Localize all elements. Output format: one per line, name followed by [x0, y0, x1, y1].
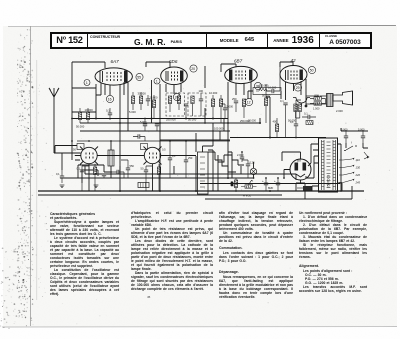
wire drop x232 [228, 152, 232, 178]
resistor 50.000 screen 2 [188, 96, 197, 122]
capacitor 5.000 [146, 95, 150, 106]
svg-text:55: 55 [137, 75, 141, 79]
svg-text:50: 50 [141, 167, 144, 171]
svg-text:100: 100 [199, 89, 204, 93]
wire selector common [338, 158, 352, 199]
resistor 10.000 (V3 screen) [209, 91, 218, 119]
IF shield box 1 [166, 93, 185, 116]
wire rectifier output [282, 152, 301, 178]
svg-text:+: + [274, 179, 276, 183]
switch wafer 2 wires [208, 150, 218, 191]
circled terminal A [84, 80, 90, 86]
svg-text:0,1: 0,1 [172, 154, 176, 158]
resistor 10.000 (V1 cathode) [85, 108, 94, 123]
wire mains top [341, 128, 368, 148]
transformer stubs [312, 144, 342, 191]
svg-text:0,1: 0,1 [290, 120, 294, 124]
tube V3 6B7 [225, 66, 258, 83]
svg-text:30.000: 30.000 [138, 92, 147, 96]
left agc cap [56, 170, 64, 183]
wire diode load verticals [248, 91, 281, 99]
resistor 500 horizontal [310, 94, 326, 101]
resistor 30.000 [138, 92, 147, 111]
IF coil secondary [170, 92, 181, 112]
svg-text:0,1: 0,1 [280, 99, 284, 103]
speaker [333, 91, 353, 105]
choke coil [306, 121, 313, 125]
wire AVC bus [72, 112, 228, 119]
circled 16 [106, 95, 113, 102]
capacitor 0,1 (V1 cathode) [106, 108, 112, 120]
capacitor grid v2 [184, 104, 188, 119]
wire v1 osc anode [72, 82, 124, 95]
svg-text:250: 250 [232, 97, 237, 101]
svg-text:50: 50 [310, 68, 314, 72]
wire V2 electrodes down [152, 80, 182, 143]
voltage selector taps [339, 158, 360, 185]
IF shield box 2 [188, 93, 206, 116]
band switch box [198, 152, 209, 194]
wire switch stair 2 [208, 152, 236, 172]
resistor 25.000 osc [150, 95, 158, 119]
wire switch risers [205, 66, 224, 140]
wire HT secondary to rectifier [306, 144, 319, 178]
svg-text:100.000: 100.000 [214, 127, 224, 131]
svg-text:0507003: 0507003 [327, 175, 331, 188]
wire top rail V3 [221, 64, 236, 72]
svg-text:110: 110 [356, 158, 361, 162]
oscillator coil [108, 141, 114, 178]
tuning gang section 1 [75, 144, 103, 192]
capacitor 10.000 coupling [266, 62, 280, 93]
electrolytic 8MF no2 [274, 178, 280, 191]
tone switch arc [293, 98, 310, 107]
svg-text:2.000: 2.000 [237, 153, 244, 157]
padding cap [121, 160, 134, 178]
bus segment y183 [200, 183, 340, 185]
fold line [31, 26, 37, 326]
ground sym left [60, 185, 65, 188]
svg-text:26: 26 [175, 95, 179, 99]
capacitor 250 mid [184, 141, 193, 178]
speaker field coil label [336, 109, 343, 113]
resistor 50.000 (V3 grid) [219, 95, 222, 123]
capacitor 0,1 (V4 grid) [280, 99, 288, 138]
circled 29 [294, 84, 301, 91]
ground sym v1 [94, 119, 99, 188]
svg-text:0,5: 0,5 [162, 148, 166, 152]
wire top rail V1 grid [72, 62, 105, 160]
circled 1 [154, 78, 160, 84]
svg-text:550: 550 [130, 164, 135, 168]
circled 50 [308, 66, 315, 73]
capacitor 5.000 v3 [221, 104, 234, 119]
svg-text:A VOL: A VOL [242, 194, 252, 198]
svg-text:1: 1 [156, 79, 158, 83]
svg-text:2.000: 2.000 [336, 109, 343, 113]
svg-text:+: + [262, 179, 264, 183]
extra junction dots [71, 118, 342, 192]
svg-text:8MF: 8MF [268, 186, 274, 190]
wire V4 electrodes down [286, 79, 307, 106]
wire v3 plate riser [266, 97, 270, 138]
osc tracking coil [138, 183, 149, 188]
ground bus main [38, 190, 364, 192]
wire gang link [54, 146, 196, 156]
tone resistors vertical pair [288, 104, 301, 123]
junction blob [305, 105, 308, 108]
mains caps 5.000 [341, 128, 348, 144]
capacitor mid 2.000 [237, 152, 244, 162]
circled 12 [245, 98, 252, 105]
svg-text:0,1: 0,1 [106, 109, 110, 113]
wire screen bus drop [228, 118, 260, 178]
capacitor 0,5 mid [168, 141, 176, 178]
svg-text:500: 500 [315, 94, 320, 98]
capacitor 10.000 agc [155, 123, 159, 131]
svg-text:20.000: 20.000 [248, 119, 256, 123]
resistor 50.000 (V1 grid leak) [76, 108, 85, 129]
svg-text:0,1: 0,1 [56, 172, 60, 176]
svg-text:6B7: 6B7 [234, 59, 243, 64]
osc trimmer caps [102, 174, 106, 178]
vline x296 cap [290, 100, 301, 138]
mains switch [344, 141, 357, 151]
circled 55 [136, 73, 143, 80]
capacitor 0,1 pair [302, 112, 316, 120]
output transformer [306, 94, 333, 107]
capacitor 100 [199, 89, 204, 116]
svg-text:0,25: 0,25 [250, 161, 256, 165]
resistor 250.000 (diode) [240, 99, 250, 123]
wire V3 electrodes down [228, 82, 251, 131]
wire HT link left [77, 140, 230, 142]
capacitor under gang1 [77, 166, 90, 191]
svg-text:10.000: 10.000 [209, 91, 218, 95]
wire gang1 ground [120, 133, 196, 191]
osc series cap [112, 170, 124, 178]
tube label 6D6 [169, 59, 178, 64]
resistor 400 (V4 cathode) [273, 118, 279, 138]
svg-text:45: 45 [147, 295, 151, 299]
label 100.000 [214, 127, 224, 131]
page top edge [8, 26, 395, 27]
circled 20 [190, 65, 197, 72]
label 50 mid left [73, 148, 76, 152]
svg-text:5.000: 5.000 [227, 105, 234, 109]
svg-text:250.000: 250.000 [166, 118, 176, 122]
resistor 1.500 horizontal [310, 99, 326, 111]
svg-text:1: 1 [86, 81, 88, 85]
svg-text:I: I [351, 141, 352, 145]
svg-text:5.000: 5.000 [129, 110, 136, 114]
wire HT rail mid [160, 138, 326, 141]
heater wire [85, 166, 296, 180]
svg-text:10.000: 10.000 [85, 108, 94, 112]
wire staircase to switch [218, 155, 244, 165]
bottom text column 2 [131, 211, 213, 291]
wire mains line [205, 198, 345, 200]
resistor under gang2 [157, 164, 160, 191]
wire left column risers [61, 153, 63, 170]
svg-text:130: 130 [356, 166, 361, 170]
resistor 5.000 screen [129, 92, 136, 114]
wire bus upper ground [60, 177, 253, 179]
label 0,5 [162, 148, 166, 152]
capacitor 250 (diode load) [232, 97, 238, 112]
resistor 1 Mohm [262, 84, 271, 123]
bottom text column 4 [299, 211, 367, 293]
diode load box 250.000 [253, 83, 281, 94]
wire top rail V4 [280, 62, 293, 67]
svg-text:50.000: 50.000 [188, 118, 197, 122]
svg-text:6A7: 6A7 [111, 59, 120, 64]
antenna [49, 88, 59, 153]
bottom text column 3 [219, 211, 293, 299]
svg-text:250: 250 [188, 156, 193, 160]
bottom text column 1 [50, 212, 119, 296]
volume potentiometer A.VOL [241, 180, 257, 197]
svg-text:5.000: 5.000 [140, 120, 147, 124]
tube label E A 7 [111, 59, 120, 64]
svg-text:245: 245 [355, 181, 361, 185]
tube V4 42 [280, 66, 307, 84]
svg-text:20: 20 [191, 67, 195, 71]
ground sym gang1 [118, 185, 123, 188]
capacitor under gang2 [141, 166, 153, 191]
resistor 250 ohm vertical [230, 178, 238, 191]
filament dropper coil [297, 186, 312, 191]
tube label 42 [291, 58, 297, 63]
circled 38 [254, 82, 261, 89]
header box [50, 32, 372, 50]
wire screen bus [80, 123, 260, 131]
rectifier tube 80 [290, 158, 311, 180]
capacitor 0,25 mid [242, 160, 255, 178]
svg-text:16: 16 [108, 97, 112, 101]
svg-text:1.500: 1.500 [313, 107, 320, 111]
junction dots [95, 105, 307, 192]
tube label 6B7 [234, 59, 243, 64]
mains plug arrow [364, 152, 370, 159]
page bottom edge [2, 326, 397, 329]
svg-text:250.000: 250.000 [259, 83, 269, 87]
tube V2 6D6 [161, 67, 188, 85]
mains caps 5.000 b [358, 128, 365, 144]
tube V1 E447 [95, 68, 132, 85]
svg-text:220: 220 [355, 173, 361, 177]
electrolytic 8MF no1 [262, 178, 274, 191]
wire V1 electrodes down [96, 82, 128, 144]
circled 26 [173, 93, 180, 100]
capacitor osc grid [133, 134, 145, 141]
svg-text:50.000: 50.000 [76, 125, 85, 129]
svg-text:12: 12 [247, 100, 251, 104]
resistor under gang1 [93, 164, 96, 191]
ground bus second [38, 194, 282, 196]
wire top of band switch [203, 123, 214, 152]
capacitor 5.000 agc [140, 119, 147, 132]
pilot lamp [250, 162, 256, 178]
osc block wires [75, 160, 112, 183]
power transformer T1 [319, 138, 338, 192]
svg-text:0,1: 0,1 [304, 112, 308, 116]
IF coil primary [166, 96, 176, 122]
svg-text:0,1: 0,1 [77, 167, 81, 171]
svg-text:29: 29 [296, 86, 300, 90]
tuning gang section 2 [138, 144, 166, 192]
svg-text:50: 50 [73, 148, 76, 152]
label 20.000 [248, 119, 256, 123]
svg-text:25.000: 25.000 [150, 96, 158, 100]
page number [147, 295, 151, 299]
wire top rail V2 grid [146, 62, 170, 67]
wire rect filament [296, 180, 305, 199]
svg-text:400: 400 [273, 120, 278, 124]
